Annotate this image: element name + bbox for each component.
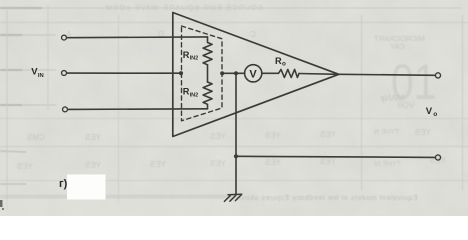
svg-text:VI ƎЧYT: VI ƎЧYT <box>374 161 402 168</box>
dashed internal model box <box>182 26 223 121</box>
svg-text:YAƆ: YAƆ <box>390 42 405 51</box>
wire middle input <box>67 72 181 74</box>
wire output top <box>339 74 436 75</box>
input terminal bottom <box>63 107 68 112</box>
scan crease band <box>0 195 236 199</box>
ink layer <box>62 13 441 202</box>
label RIN2 lower <box>183 87 198 99</box>
svg-text:IN2: IN2 <box>190 92 199 98</box>
wire top input <box>67 36 208 39</box>
wire ground drop <box>235 73 237 194</box>
svg-text:V: V <box>249 68 257 80</box>
svg-text:ƧƎY: ƧƎY <box>17 162 34 171</box>
svg-text:ƧƎY: ƧƎY <box>320 130 337 139</box>
svg-text:ƧƎY: ƧƎY <box>320 157 337 166</box>
svg-text:ƧƎY: ƧƎY <box>415 128 432 137</box>
label Ro <box>275 56 286 68</box>
svg-text:ƧƎY: ƧƎY <box>85 161 102 170</box>
output terminal bottom <box>435 155 440 160</box>
svg-text:ƧƎY: ƧƎY <box>85 133 102 142</box>
svg-text:V: V <box>426 106 433 117</box>
node dot ground tap <box>234 71 238 75</box>
svg-text:ЯOV: ЯOV <box>397 101 415 110</box>
svg-text:ƧƎY: ƧƎY <box>150 160 167 169</box>
output terminal top <box>435 73 440 78</box>
resistor RIN2 upper <box>203 37 212 65</box>
svg-text:IN: IN <box>38 73 44 79</box>
wire V to Ro <box>262 72 279 74</box>
wire output bottom <box>236 156 435 157</box>
svg-text:г): г) <box>59 178 68 190</box>
svg-text:ƧƎY: ƧƎY <box>265 131 282 140</box>
ground symbol <box>224 194 241 201</box>
label VIN <box>31 66 43 78</box>
label RIN2 upper <box>183 50 198 62</box>
faint table lines <box>0 7 462 9</box>
node dot on right dashed edge <box>220 71 224 75</box>
light page margin <box>0 200 240 217</box>
wire bottom input <box>68 108 208 111</box>
source V circle <box>245 65 262 82</box>
svg-text:ƧƎY: ƧƎY <box>210 132 227 141</box>
text labels (ink) <box>31 50 437 190</box>
node dot on left dashed edge <box>179 71 183 75</box>
input terminal top <box>62 35 67 40</box>
wire chain middle segment <box>207 65 209 82</box>
svg-text:R: R <box>275 56 282 66</box>
wire Ro to vertex <box>299 73 339 76</box>
svg-text:ɘvodɒ ƨɘɿuǫiƎ ʞɔɒdbɘɘʇ ɘʜƚ ʇo: ɘvodɒ ƨɘɿuǫiƎ ʞɔɒdbɘɘʇ ɘʜƚ ʇo ƨlɘbom ƚnɘ… <box>237 195 418 202</box>
svg-text:ƧƎY: ƧƎY <box>210 159 227 168</box>
svg-text:MЯOʞ ƎVAW-ƎЯAUQƧ ЯOƎ ƎƆЯUOƧ: MЯOʞ ƎVAW-ƎЯAUQƧ ЯOƎ ƎƆЯUOƧ <box>106 3 264 12</box>
svg-text:o: o <box>433 111 437 118</box>
svg-text:IN2: IN2 <box>190 56 199 62</box>
resistor RIN2 lower <box>203 82 212 109</box>
svg-text:Ɔ: Ɔ <box>250 30 256 39</box>
svg-text:ƧƎY: ƧƎY <box>265 158 282 167</box>
op-amp triangle <box>173 13 339 137</box>
wire to source <box>222 72 245 74</box>
input terminal middle <box>62 71 67 76</box>
svg-text:o: o <box>282 60 286 67</box>
page edge speck <box>0 200 3 207</box>
white patch <box>67 175 106 200</box>
resistor Ro <box>279 69 300 77</box>
page edge dot <box>2 208 4 210</box>
svg-text:ƧMƆ: ƧMƆ <box>27 133 45 142</box>
svg-text:И ƎЧYT: И ƎЧYT <box>374 129 400 136</box>
label Vo <box>426 106 437 118</box>
node dot bottom junction <box>234 154 238 158</box>
